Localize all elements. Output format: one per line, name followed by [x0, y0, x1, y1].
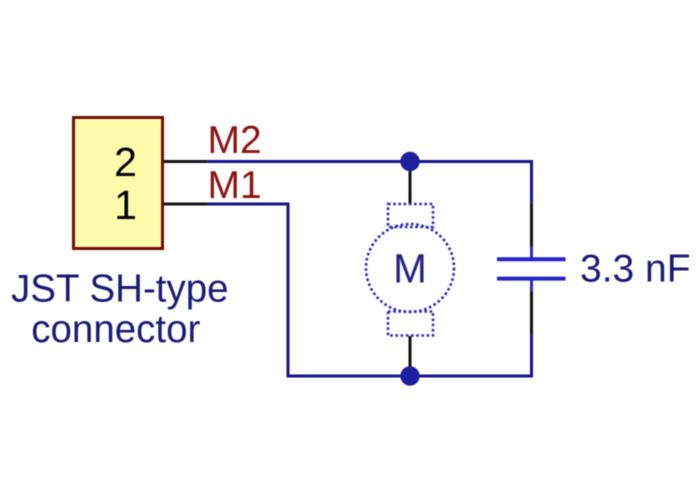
connector J1 body	[74, 118, 163, 249]
svg-text:1: 1	[114, 182, 137, 228]
wire: net M1 horizontal from connector	[207, 203, 288, 206]
wire: pin 2 black stub	[161, 160, 208, 163]
wire: capacitor bottom to net M1	[530, 334, 533, 378]
capacitor C1 top plate	[497, 257, 566, 261]
svg-text:3.3 nF: 3.3 nF	[580, 248, 691, 291]
wire: pin 1 black stub	[161, 203, 208, 206]
svg-text:M: M	[393, 245, 427, 291]
wire: net M1 horizontal bottom	[288, 375, 532, 378]
svg-text:M2: M2	[208, 119, 262, 162]
capacitor C1 top lead (black)	[530, 204, 533, 248]
svg-text:connector: connector	[31, 308, 200, 351]
capacitor C1 top stub (blue)	[530, 247, 533, 258]
node: junction dot top	[400, 152, 419, 171]
motor M1 symbol: top terminal block (dotted)	[388, 204, 433, 227]
motor M top lead (black)	[409, 162, 412, 205]
motor M bottom lead (black)	[409, 336, 412, 376]
svg-text:2: 2	[114, 139, 137, 185]
wire: net M1 vertical down	[287, 203, 290, 378]
wire: net M2 right vertical to capacitor	[530, 160, 533, 204]
wire: net M2 horizontal top	[207, 160, 532, 163]
capacitor C1 bottom stub (blue)	[530, 281, 533, 292]
motor M1 symbol: body circle (dotted)	[366, 224, 454, 312]
capacitor C1 bottom plate	[497, 277, 566, 281]
svg-text:M1: M1	[208, 164, 262, 207]
svg-text:JST SH-type: JST SH-type	[11, 267, 229, 310]
motor M1 symbol: bottom terminal block (dotted)	[388, 312, 433, 336]
capacitor C1 bottom lead (black)	[530, 291, 533, 334]
node: junction dot bottom	[400, 366, 419, 385]
